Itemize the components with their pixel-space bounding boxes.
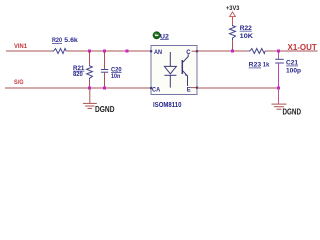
svg-text:VIN1: VIN1 [14,43,28,50]
junction top of R21 [88,50,91,53]
svg-text:E: E [187,87,191,93]
wire U2 E pin to C21 [197,87,279,89]
pin line E [191,87,198,89]
wire C21 to bottom wire and ground [278,63,280,88]
svg-text:ISOM8110: ISOM8110 [153,100,182,109]
junction top of C20 [103,50,106,53]
optocoupler U2 ISOM8110 box [151,46,197,95]
svg-text:820: 820 [73,71,83,78]
svg-text:C: C [186,50,191,56]
resistor R23 [249,49,265,54]
junction bottom of C21 [277,87,280,90]
pin dots [196,50,198,52]
svg-text:10n: 10n [111,73,120,80]
svg-text:CA: CA [152,87,161,93]
svg-text:S/G: S/G [14,79,24,86]
wire C20 to bottom wire [104,72,106,88]
resistor R22 [230,25,236,41]
LED inside U2 [169,52,171,66]
junction bottom of R21 [88,87,91,90]
capacitor C21 [275,58,284,60]
pin line C [192,50,198,52]
wire R23 to X1-OUT [265,50,318,52]
svg-text:U2: U2 [160,33,169,40]
wire junction to C21 [278,51,280,59]
junction on top wire [126,50,129,53]
wire R21 to bottom wire [89,79,91,88]
resistor R20 [52,49,66,54]
wire VIN1 to R20 [6,50,52,52]
svg-text:1k: 1k [263,62,270,69]
svg-text:R23: R23 [249,62,262,69]
svg-text:DGND: DGND [283,106,302,116]
ground DGND right [278,88,280,104]
ground DGND left [89,88,91,103]
junction R22 [231,50,234,53]
green ball marker [153,32,160,39]
transistor inside U2 [181,60,183,74]
svg-text:+3V3: +3V3 [226,5,240,12]
svg-text:100p: 100p [286,67,301,74]
resistor R21 [87,65,93,80]
junction top of C21 [277,50,280,53]
svg-text:10K: 10K [240,33,254,40]
wire junction to R21 [89,51,91,65]
wire R22 to top wire [232,40,234,51]
wire R20 to U2 AN pin [66,50,151,52]
svg-text:X1-OUT: X1-OUT [288,43,317,52]
wire S/G to U2 CA pin [5,87,151,89]
svg-text:AN: AN [154,50,162,56]
svg-text:R22: R22 [240,25,252,32]
junction bottom of C20 [103,87,106,90]
capacitor C20 [101,69,108,71]
svg-text:5.6k: 5.6k [64,37,78,44]
svg-text:DGND: DGND [95,104,115,114]
svg-text:R20: R20 [52,37,62,44]
wire U2 C pin to R23 [197,50,249,52]
wire junction to C20 [104,51,106,70]
svg-text:C21: C21 [286,60,298,67]
